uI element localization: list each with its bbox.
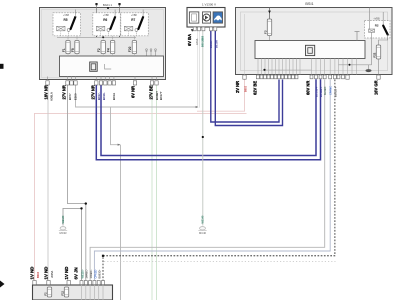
svg-text:1V ND: 1V ND [30,267,35,280]
svg-text:F1: F1 [62,48,66,52]
svg-text:WE140: WE140 [202,215,205,224]
svg-text:A36LA: A36LA [50,92,54,101]
svg-text:160: 160 [202,35,205,40]
svg-text:F9: F9 [71,48,75,52]
svg-text:6V NR: 6V NR [131,86,136,98]
svg-text:B002: B002 [37,271,40,278]
svg-text:MC40: MC40 [199,231,206,235]
svg-text:1V ND: 1V ND [44,267,49,280]
svg-text:+VBB: +VBB [373,17,380,20]
svg-text:2V NR: 2V NR [235,81,240,93]
svg-text:F12: F12 [60,290,64,295]
svg-text:F22: F22 [372,52,376,57]
svg-text:60V NR: 60V NR [305,81,310,95]
svg-text:CPA1E-: CPA1E- [93,269,97,278]
svg-text:WE130: WE130 [62,215,65,224]
svg-text:BSI1: BSI1 [305,2,313,6]
svg-text:MC33: MC33 [60,231,67,235]
svg-text:F20: F20 [128,46,132,52]
svg-text:R6: R6 [103,18,107,22]
svg-text:B017B-4: B017B-4 [314,86,318,97]
svg-text:62V BE: 62V BE [253,81,258,95]
svg-text:27V NR: 27V NR [62,85,67,99]
svg-text:F4: F4 [106,48,110,52]
svg-text:1V ND: 1V ND [64,267,69,280]
svg-text:1H4BC: 1H4BC [323,86,327,95]
svg-text:18V NR: 18V NR [43,85,48,99]
svg-text:B016-: B016- [102,92,106,100]
svg-text:R5: R5 [63,18,67,22]
svg-text:B018V: B018V [210,40,213,48]
svg-text:6V JN: 6V JN [74,267,79,279]
svg-text:149BC-: 149BC- [89,269,93,278]
svg-text:27V NR: 27V NR [91,85,96,99]
svg-text:B002: B002 [244,85,247,92]
svg-text:B953D-: B953D- [98,269,102,278]
svg-text:B018H: B018H [215,40,218,48]
svg-text:1 V1300 V: 1 V1300 V [202,2,216,6]
svg-text:F3: F3 [263,30,267,34]
svg-text:+VB8: +VB8 [131,14,138,17]
svg-text:R7: R7 [131,18,135,22]
svg-text:A36A: A36A [196,38,199,45]
svg-text:B016B-4: B016B-4 [319,86,323,97]
svg-text:B017-: B017- [97,92,101,100]
svg-text:BA01 1: BA01 1 [103,3,113,7]
svg-text:B953D-4: B953D-4 [333,86,337,97]
svg-text:B017Y: B017Y [159,91,163,100]
svg-text:B077: B077 [68,93,72,100]
svg-text:27V BE: 27V BE [149,85,154,99]
svg-text:CPANC: CPANC [329,86,333,95]
svg-text:E209: E209 [74,93,78,100]
svg-text:B01A: B01A [112,93,116,100]
svg-text:WE110-: WE110- [80,269,84,278]
svg-text:+VB8: +VB8 [103,14,110,17]
svg-text:J005A: J005A [51,270,54,278]
svg-text:F2: F2 [97,48,101,52]
svg-text:1H4BC-: 1H4BC- [85,269,89,279]
svg-text:16V GR: 16V GR [374,80,379,95]
svg-text:6V BA: 6V BA [187,34,192,46]
svg-text:R2: R2 [375,24,379,28]
svg-text:+VB8: +VB8 [63,14,70,17]
